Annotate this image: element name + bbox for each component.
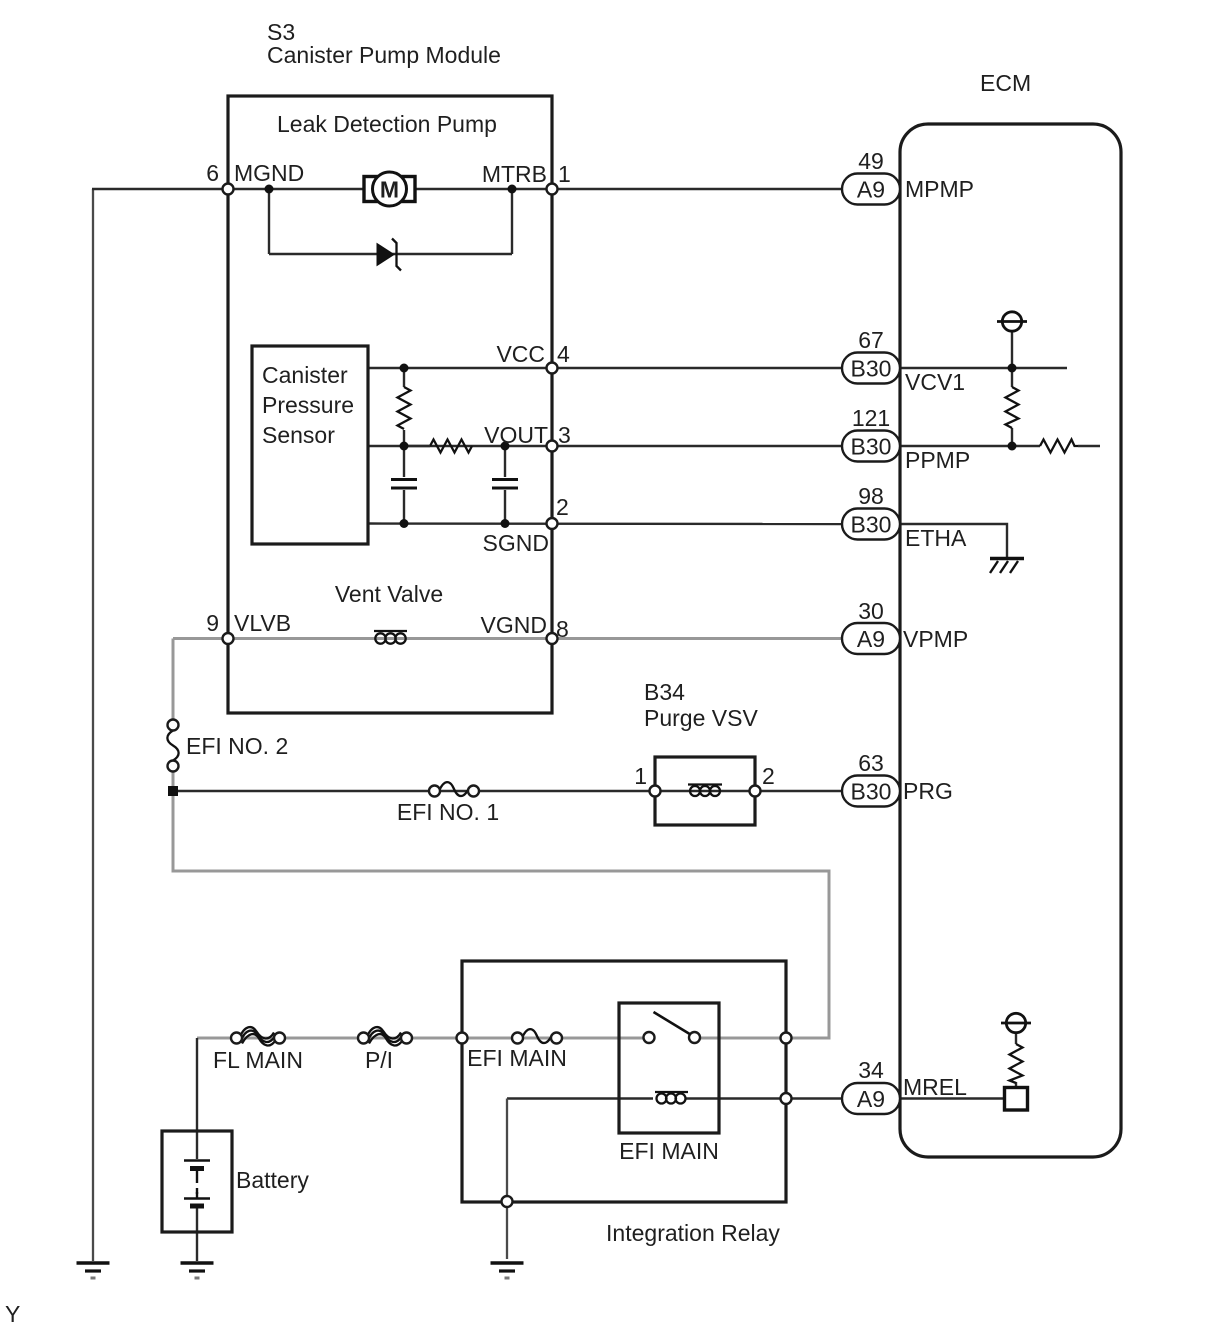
svg-text:PRG: PRG: [903, 778, 953, 804]
wire gray loop junction to integration relay: [173, 791, 829, 1038]
svg-text:M: M: [380, 177, 399, 203]
pin 1 MTRB: [547, 184, 558, 195]
svg-text:FL MAIN: FL MAIN: [213, 1047, 303, 1073]
wire gray down to EFI NO.2 fuse: [172, 639, 175, 722]
ECM connector pill 34 A9 MREL: [842, 1083, 900, 1114]
vent valve inductor: [374, 631, 407, 644]
svg-text:Battery: Battery: [236, 1167, 309, 1193]
MREL load square: [1005, 1088, 1028, 1111]
svg-text:2: 2: [556, 494, 569, 520]
svg-text:EFI NO. 2: EFI NO. 2: [186, 733, 288, 759]
ECM power symbol B+ (MREL): [1001, 1013, 1031, 1032]
wire sensor rail mid: [403, 430, 405, 477]
node integration relay right edge top: [781, 1033, 792, 1044]
junction VCC rail dot: [400, 364, 409, 373]
svg-text:63: 63: [858, 750, 884, 776]
svg-text:49: 49: [858, 148, 884, 174]
wire motor line MGND-MTRB-MPMP: [228, 188, 842, 190]
svg-text:121: 121: [852, 405, 890, 431]
svg-text:Pressure: Pressure: [262, 392, 354, 418]
svg-text:VCC: VCC: [496, 341, 545, 367]
node integration relay bottom edge: [502, 1196, 513, 1207]
wire cap2 rail lower: [504, 490, 506, 524]
junction VOUT cap2 dot: [501, 442, 510, 451]
svg-text:Y: Y: [5, 1301, 20, 1327]
wire MGND ground net (gray vertical to bottom-left ground): [92, 189, 94, 1261]
wire MGND left segment: [92, 188, 228, 190]
wire diode branch left stub: [268, 189, 270, 254]
resistor sensor vertical: [398, 387, 411, 429]
svg-text:Canister Pump Module: Canister Pump Module: [267, 42, 501, 68]
wire VLVB branch to fuse (gray): [173, 637, 228, 640]
ECM connector pill 67 B30 VCV1: [842, 353, 900, 384]
fuse EFI NO.1: [429, 782, 479, 796]
svg-text:67: 67: [858, 327, 884, 353]
svg-text:MGND: MGND: [234, 160, 304, 186]
svg-text:4: 4: [557, 341, 570, 367]
svg-text:8: 8: [556, 616, 569, 642]
svg-text:34: 34: [858, 1057, 884, 1083]
fusible link P/I: [358, 1027, 412, 1045]
relay blade: [654, 1012, 691, 1035]
wire diode branch right stub: [511, 189, 513, 254]
fusible link FL MAIN: [231, 1027, 285, 1045]
wire coil to MREL pill (black): [685, 1097, 842, 1099]
capacitor C2: [492, 480, 518, 489]
wire VOUT line: [368, 445, 842, 447]
canister pump module box S3: [228, 96, 552, 713]
ECM connector pill 63 B30 PRG: [842, 776, 900, 807]
ECM connector pill 30 A9 VPMP: [842, 623, 900, 654]
svg-text:B30: B30: [851, 779, 892, 805]
relay contact left: [644, 1032, 655, 1043]
wire cap2 rail upper: [504, 446, 506, 477]
svg-text:98: 98: [858, 483, 884, 509]
svg-text:A9: A9: [857, 626, 885, 652]
pin 9 VLVB: [223, 633, 234, 644]
svg-text:SGND: SGND: [483, 530, 549, 556]
wire ECM resistor lower lead: [1011, 428, 1013, 446]
svg-text:2: 2: [762, 763, 775, 789]
svg-text:30: 30: [858, 598, 884, 624]
label Canister Pressure Sensor: [262, 362, 354, 448]
BOXES: [162, 96, 1121, 1232]
resistor ECM PPMP horizontal: [1040, 440, 1078, 453]
wire VOUT resistor leads: [404, 445, 430, 447]
pin 1 purge VSV: [650, 786, 661, 797]
wire diode branch horizontal: [269, 253, 512, 255]
wire SGND line: [368, 522, 842, 525]
relay coil EFI MAIN: [655, 1092, 688, 1104]
fuse EFI NO.2 (vertical): [167, 720, 178, 772]
svg-text:P/I: P/I: [365, 1047, 393, 1073]
EFI MAIN relay box: [619, 1003, 719, 1133]
wire coil ground drop (gray): [506, 1099, 508, 1260]
battery cell plates: [184, 1161, 210, 1207]
wire main power line right of relay contact (gray): [694, 1037, 829, 1040]
svg-text:6: 6: [206, 160, 219, 186]
svg-text:Integration Relay: Integration Relay: [606, 1220, 780, 1246]
pin 3 VOUT: [547, 441, 558, 452]
svg-text:Vent Valve: Vent Valve: [335, 581, 443, 607]
wire main power line left (gray): [197, 1037, 650, 1040]
wire ECM MREL resistor to square: [1015, 1082, 1017, 1088]
junction ECM VCV1 dot: [1008, 364, 1017, 373]
junction MTRB dot: [508, 185, 517, 194]
svg-text:VPMP: VPMP: [903, 626, 968, 652]
motor M leak detection pump: [364, 172, 415, 206]
wire gray fuse to junction: [172, 770, 175, 791]
battery box: [162, 1131, 232, 1232]
svg-text:EFI MAIN: EFI MAIN: [467, 1045, 567, 1071]
wire sensor rail upper: [403, 368, 405, 387]
pin 2 purge VSV: [750, 786, 761, 797]
svg-text:ECM: ECM: [980, 70, 1031, 96]
pin 6 MGND: [223, 184, 234, 195]
svg-text:ETHA: ETHA: [905, 525, 967, 551]
wire ECM MREL resistor stem: [1015, 1033, 1017, 1044]
svg-text:Sensor: Sensor: [262, 422, 335, 448]
svg-text:MPMP: MPMP: [905, 176, 974, 202]
canister pressure sensor box: [252, 346, 368, 544]
wire EFI NO.1 line to PRG: [173, 790, 842, 792]
svg-text:A9: A9: [857, 177, 885, 203]
svg-text:VOUT: VOUT: [484, 422, 548, 448]
ECM box: [900, 124, 1121, 1157]
wire VCC line: [368, 367, 842, 369]
wire ECM VCV1 internal: [900, 367, 1067, 369]
ECM connector pill 121 B30 PPMP: [842, 431, 900, 462]
wire relay coil feed (gray): [507, 1097, 653, 1099]
junction VOUT rail dot: [400, 442, 409, 451]
pin 4 VCC: [547, 363, 558, 374]
wire battery bottom to ground: [196, 1208, 198, 1261]
integration relay box: [462, 961, 786, 1202]
wire vent valve line VLVB-VGND-VPMP (gray): [228, 637, 842, 640]
wire ECM ETHA internal: [900, 524, 1007, 557]
svg-text:VCV1: VCV1: [905, 369, 965, 395]
svg-text:EFI NO. 1: EFI NO. 1: [397, 799, 499, 825]
pin 2 SGND: [547, 518, 558, 529]
svg-text:EFI MAIN: EFI MAIN: [619, 1138, 719, 1164]
chassis ground ETHA: [990, 559, 1024, 574]
svg-text:MTRB: MTRB: [482, 161, 547, 187]
svg-text:Canister: Canister: [262, 362, 348, 388]
svg-text:Purge VSV: Purge VSV: [644, 705, 758, 731]
svg-text:1: 1: [634, 763, 647, 789]
ground integration relay: [491, 1263, 524, 1278]
svg-text:A9: A9: [857, 1086, 885, 1112]
ground battery: [181, 1263, 214, 1278]
purge VSV inductor: [688, 785, 722, 797]
ECM connector pill 49 A9 MPMP: [842, 174, 900, 205]
svg-text:Leak Detection Pump: Leak Detection Pump: [277, 111, 497, 137]
svg-text:MREL: MREL: [903, 1074, 967, 1100]
svg-text:B34: B34: [644, 679, 685, 705]
diode D1 (zener): [377, 239, 401, 271]
junction MGND dot: [265, 185, 274, 194]
svg-text:PPMP: PPMP: [905, 447, 970, 473]
resistor VOUT horizontal: [430, 440, 472, 453]
junction SGND cap2 dot: [501, 519, 510, 528]
pin 8 VGND: [547, 633, 558, 644]
fuse EFI MAIN: [512, 1029, 562, 1043]
svg-text:3: 3: [558, 422, 571, 448]
node integration relay left edge: [457, 1033, 468, 1044]
svg-text:VGND: VGND: [481, 612, 547, 638]
ground bottom-left: [77, 1263, 110, 1278]
svg-text:VLVB: VLVB: [234, 610, 291, 636]
wire ECM PPMP internal left: [900, 445, 1040, 447]
svg-text:9: 9: [206, 610, 219, 636]
capacitor C1: [391, 480, 417, 489]
wire battery top: [196, 1038, 198, 1159]
junction EFI NO.2 / EFI NO.1 dot: [168, 786, 178, 796]
svg-text:B30: B30: [851, 434, 892, 460]
svg-text:B30: B30: [851, 356, 892, 382]
wire ECM MREL internal: [900, 1097, 1005, 1099]
resistor ECM MREL vertical: [1010, 1044, 1023, 1083]
wire ECM PPMP internal right: [1078, 445, 1100, 447]
ECM power symbol B+ (VCV1): [997, 312, 1027, 331]
wire ECM B+ stem upper: [1011, 332, 1013, 368]
svg-text:1: 1: [558, 161, 571, 187]
node integration relay right edge bottom: [781, 1093, 792, 1104]
svg-text:B30: B30: [851, 512, 892, 538]
junction SGND rail dot: [400, 519, 409, 528]
resistor ECM VCV1-PPMP vertical: [1006, 387, 1019, 428]
junction ECM PPMP dot: [1008, 442, 1017, 451]
wire ECM resistor leads VCV1-PPMP: [1011, 368, 1013, 387]
wire sensor rail lower: [403, 490, 405, 524]
ECM connector pill 98 B30 ETHA: [842, 509, 900, 540]
relay contact right: [689, 1032, 700, 1043]
purge VSV box B34: [655, 757, 755, 825]
